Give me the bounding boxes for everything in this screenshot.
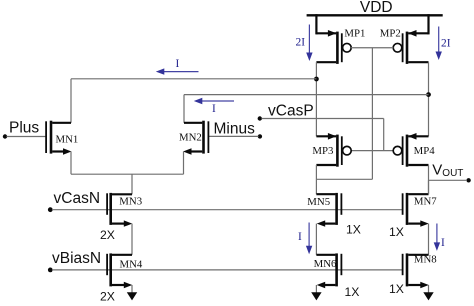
svg-text:2I: 2I [296, 37, 306, 49]
svg-text:1X: 1X [345, 285, 360, 299]
wire gate-tap to cascode node A [316, 178, 372, 180]
junction node A [314, 77, 319, 82]
current arrow 2I right [436, 27, 442, 61]
svg-text:OUT: OUT [442, 168, 463, 179]
svg-text:MN3: MN3 [119, 196, 142, 208]
svg-text:MN6: MN6 [314, 258, 337, 270]
port VOUT [432, 161, 471, 182]
label 1X of MN6 [345, 285, 360, 299]
ground under MN8 [423, 292, 433, 300]
wire node A: MP3 drain to MN5 drain [315, 165, 317, 194]
wire MP1-MP2 common gate [351, 48, 393, 180]
transistor MN2 [183, 121, 208, 155]
label MP1 [344, 27, 365, 39]
svg-text:vBiasN: vBiasN [52, 250, 101, 267]
transistor MN8 [403, 253, 429, 288]
current arrow I on W2 [194, 98, 234, 104]
port Minus [214, 120, 263, 138]
node B column: MP2 drain to MP4 source [428, 62, 430, 136]
transistor MN4 [107, 253, 132, 288]
current arrow I lower-right [434, 224, 440, 251]
svg-text:MN2: MN2 [179, 131, 202, 143]
svg-text:VDD: VDD [360, 0, 393, 16]
wire Plus to MN1 gate [7, 136, 47, 138]
current label I on W1 [176, 58, 180, 70]
svg-text:MN8: MN8 [414, 254, 437, 266]
label MN4 [120, 259, 143, 271]
transistor MN1 [46, 121, 71, 155]
ground under MN4 [127, 292, 137, 300]
VDD label [360, 0, 393, 16]
label 1X of MN7 [389, 225, 404, 239]
svg-text:1X: 1X [389, 225, 404, 239]
label MN1 [56, 133, 79, 145]
svg-text:I: I [298, 231, 302, 243]
svg-text:I: I [176, 58, 180, 70]
junction node B [426, 92, 431, 97]
label MP3 [312, 145, 333, 157]
port vCasP [258, 103, 314, 121]
transistor MN7 [403, 193, 429, 227]
svg-text:MN5: MN5 [307, 196, 330, 208]
svg-text:2I: 2I [441, 38, 451, 50]
wire vCasP rail to MP3/MP4 gates [262, 119, 394, 151]
label 2X of MN4 [100, 290, 115, 304]
svg-text:MP1: MP1 [344, 27, 365, 39]
current label 2I left [296, 37, 306, 49]
label 1X of MN8 [389, 282, 404, 296]
wire MN7 drain up to VOUT node [428, 180, 430, 194]
transistor MP3 [316, 133, 351, 167]
current label I lower-left [298, 231, 302, 243]
svg-text:vCasN: vCasN [54, 190, 101, 207]
svg-text:MN4: MN4 [120, 259, 143, 271]
wire VOUT tap [429, 179, 468, 181]
transistor MN5 [316, 193, 341, 227]
label MP2 [380, 28, 401, 40]
VDD rail [307, 14, 443, 16]
wire MN5 source to MN6 drain [315, 224, 317, 255]
svg-text:Plus: Plus [9, 119, 39, 136]
svg-text:MN1: MN1 [56, 133, 79, 145]
transistor MN6 [316, 253, 341, 288]
wire Minus to MN2 gate [208, 135, 258, 137]
current label I lower-right [441, 237, 445, 249]
current label I on W2 [212, 103, 216, 115]
current arrow 2I left [306, 25, 312, 62]
svg-text:1X: 1X [389, 282, 404, 296]
svg-text:MP2: MP2 [380, 28, 401, 40]
svg-text:Minus: Minus [214, 120, 256, 137]
transistor MN3 [107, 193, 132, 227]
label MN8 [414, 254, 437, 266]
wire MN8 source stub [428, 285, 430, 293]
wire vCasN rail [52, 209, 403, 211]
svg-text:I: I [441, 237, 445, 249]
wire W1 from MN1 drain to node A [71, 79, 316, 123]
current arrow I lower-left [306, 223, 312, 255]
label MN2 [179, 131, 202, 143]
wire tail node [71, 152, 184, 195]
label 1X of MN5 [346, 223, 361, 237]
label MN3 [119, 196, 142, 208]
transistor MP1 [316, 14, 351, 64]
wire MN6 source stub [315, 285, 317, 293]
svg-text:MN7: MN7 [414, 196, 437, 208]
wire vBiasN rail [52, 269, 403, 271]
svg-text:2X: 2X [100, 228, 115, 242]
svg-text:vCasP: vCasP [268, 103, 314, 120]
label MP4 [414, 145, 436, 157]
svg-text:MP4: MP4 [414, 145, 436, 157]
wire W2 from MN2 drain to node B [184, 95, 429, 123]
svg-text:MP3: MP3 [312, 145, 333, 157]
svg-text:V: V [432, 161, 442, 178]
port Plus [3, 119, 40, 138]
transistor MP4 [393, 133, 428, 167]
port vCasN [48, 190, 100, 212]
wire MN4 source stub [131, 285, 133, 293]
transistor MP2 [393, 14, 428, 64]
node A column: MP1 drain to MP3 source [315, 62, 317, 136]
svg-text:2X: 2X [100, 290, 115, 304]
ground under MN6 [311, 292, 321, 300]
wire node B: MP4 drain to MN7 drain [428, 165, 430, 194]
label 2X of MN3 [100, 228, 115, 242]
current arrow I on W1 [156, 68, 199, 74]
current label 2I right [441, 38, 451, 50]
wire MN7 source to MN8 drain [428, 224, 430, 255]
wire MN3 source to MN4 drain [131, 224, 133, 255]
label MN6 [314, 258, 337, 270]
label MN7 [414, 196, 437, 208]
svg-text:I: I [212, 103, 216, 115]
label MN5 [307, 196, 330, 208]
port vBiasN [48, 250, 101, 272]
svg-text:1X: 1X [346, 223, 361, 237]
